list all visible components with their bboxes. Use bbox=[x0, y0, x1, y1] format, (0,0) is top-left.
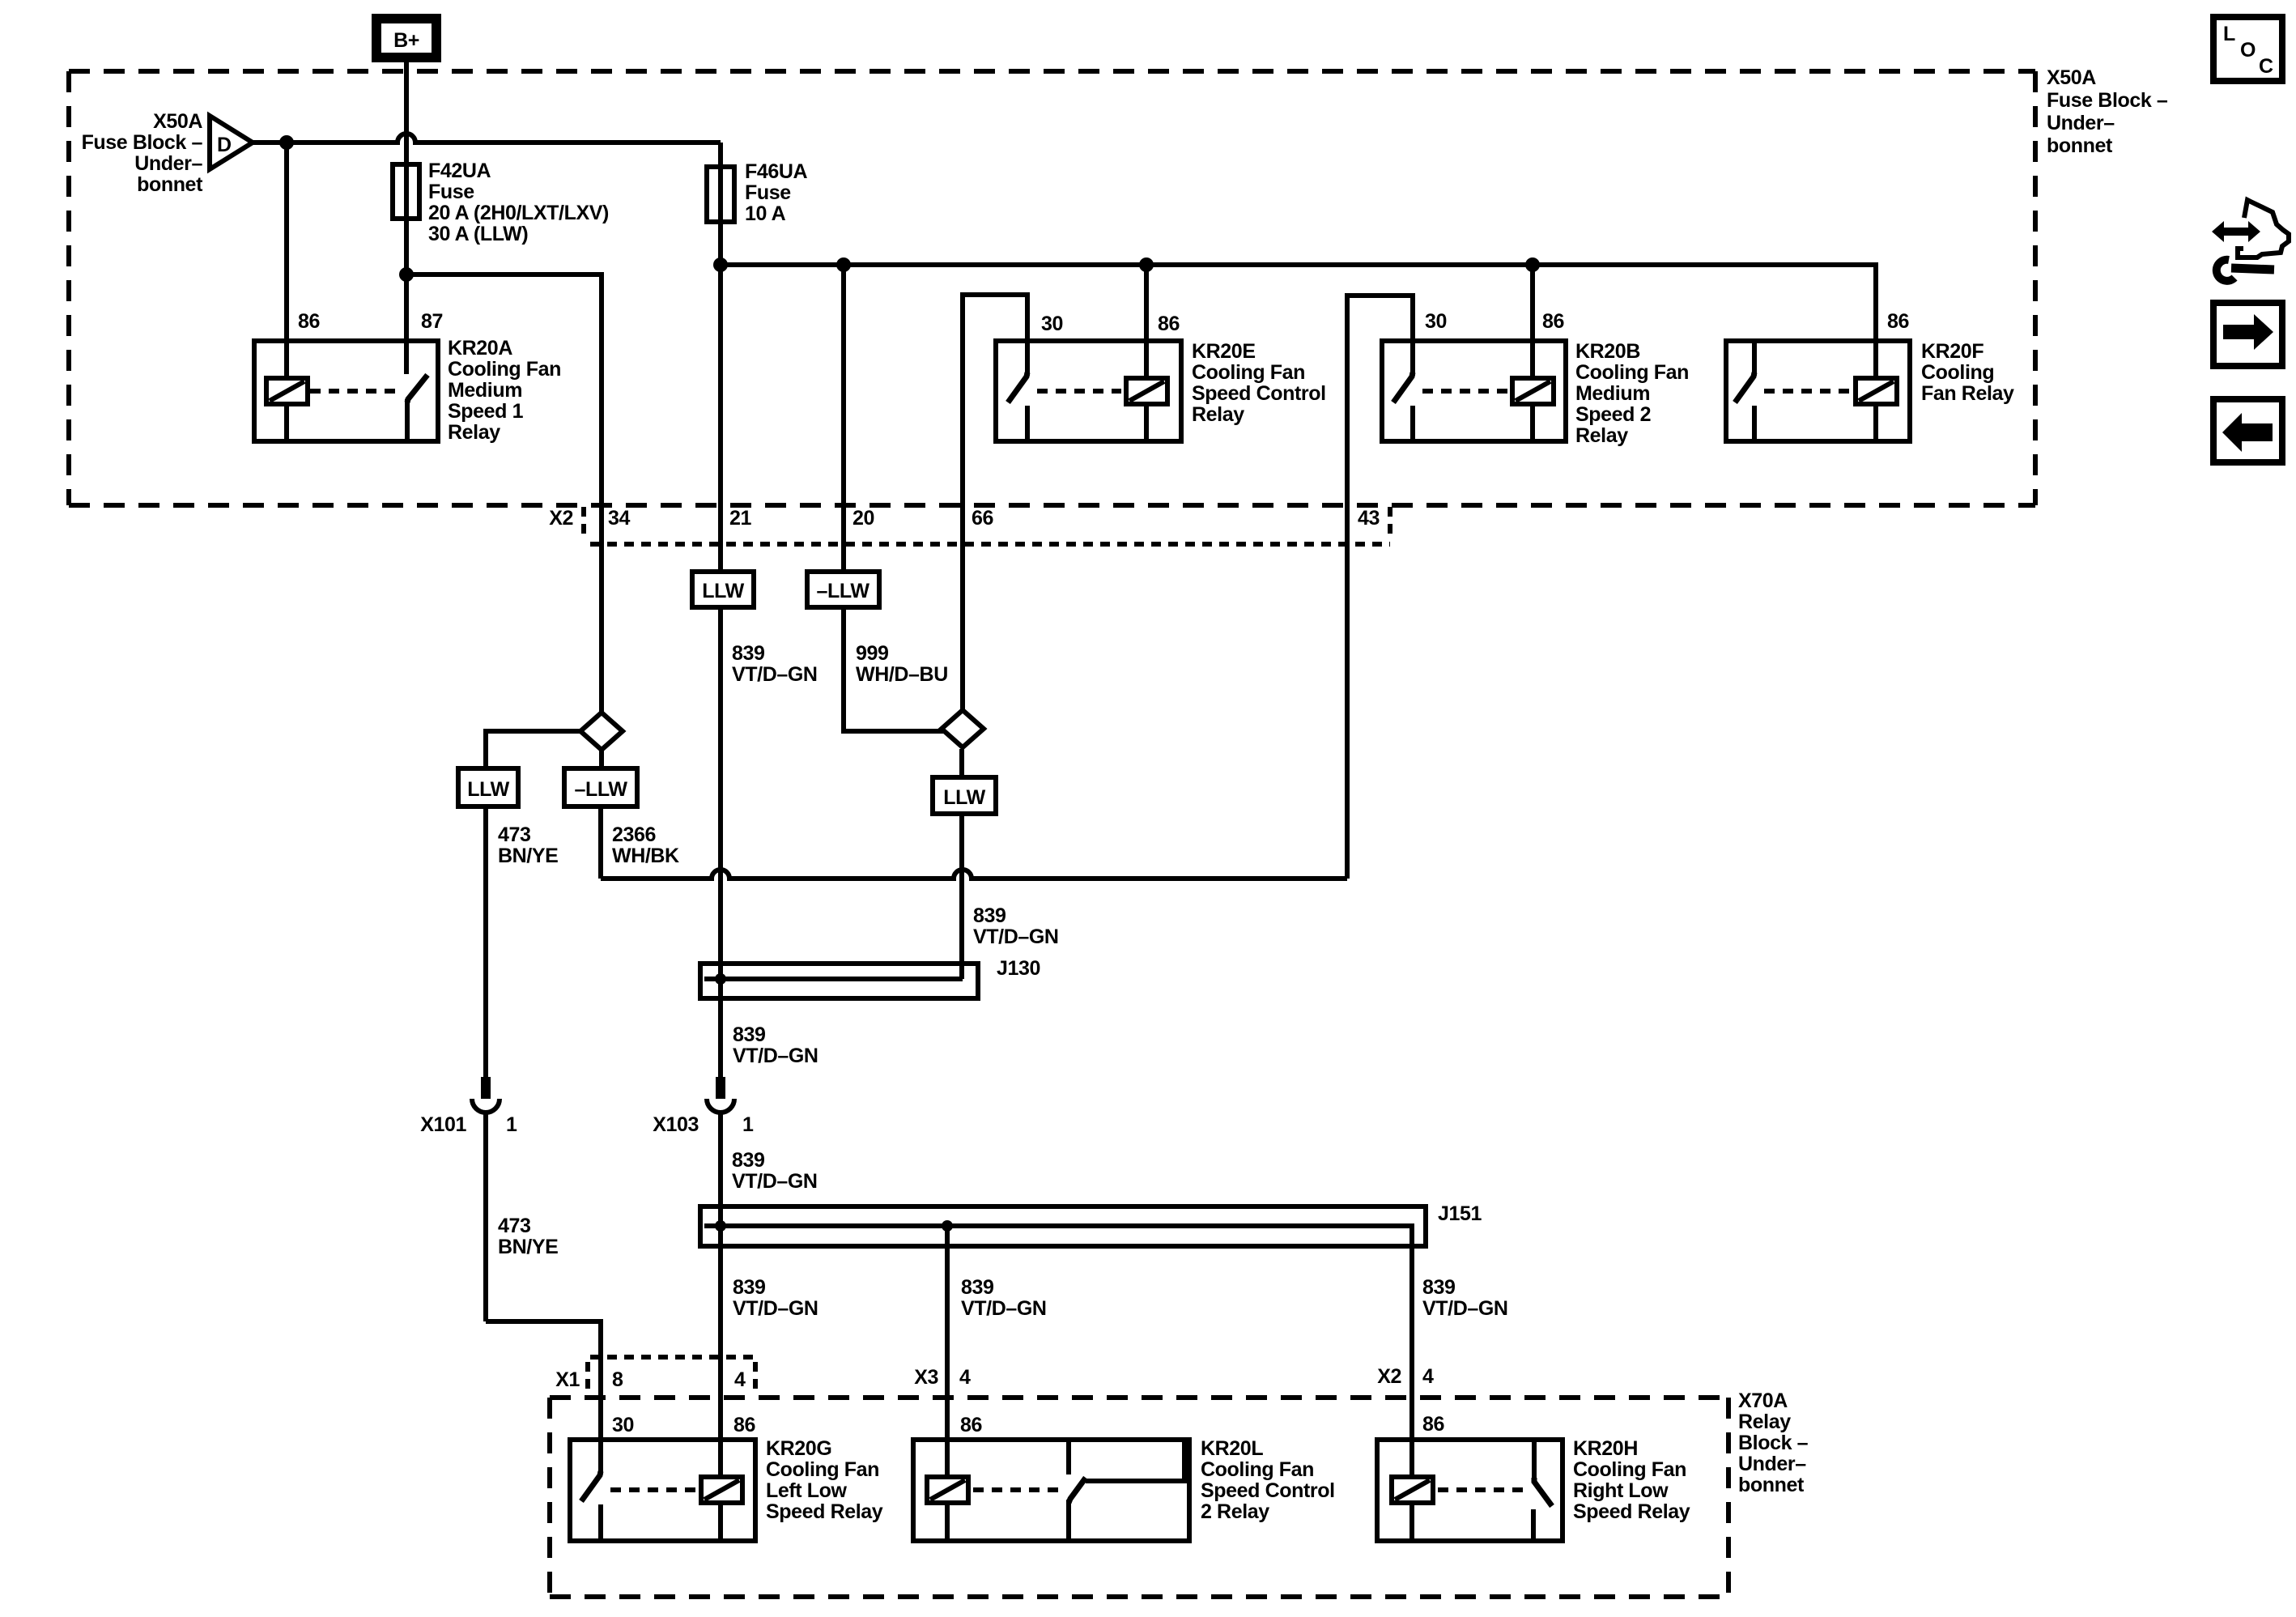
svg-text:F42UA: F42UA bbox=[428, 160, 491, 182]
svg-text:VT/D–GN: VT/D–GN bbox=[973, 926, 1059, 948]
svg-text:Cooling Fan: Cooling Fan bbox=[1575, 361, 1689, 384]
svg-text:X1: X1 bbox=[555, 1368, 580, 1391]
svg-text:D: D bbox=[217, 134, 232, 156]
svg-text:Speed Relay: Speed Relay bbox=[766, 1500, 883, 1523]
svg-text:473: 473 bbox=[498, 1215, 531, 1237]
svg-text:KR20E: KR20E bbox=[1192, 340, 1256, 363]
svg-text:Cooling Fan: Cooling Fan bbox=[1573, 1458, 1686, 1481]
svg-text:1: 1 bbox=[506, 1113, 517, 1136]
svg-text:8: 8 bbox=[612, 1368, 623, 1391]
svg-text:X3: X3 bbox=[914, 1366, 938, 1389]
svg-text:bonnet: bonnet bbox=[2047, 134, 2113, 157]
svg-text:Fuse Block –: Fuse Block – bbox=[2047, 89, 2168, 112]
svg-text:Cooling: Cooling bbox=[1921, 361, 1994, 384]
svg-text:VT/D–GN: VT/D–GN bbox=[732, 1170, 818, 1193]
svg-text:X2: X2 bbox=[1377, 1365, 1401, 1388]
svg-text:839: 839 bbox=[1422, 1276, 1456, 1299]
svg-text:86: 86 bbox=[1158, 313, 1180, 335]
svg-text:Medium: Medium bbox=[1575, 382, 1650, 405]
svg-text:Speed Control: Speed Control bbox=[1201, 1479, 1335, 1502]
svg-text:F46UA: F46UA bbox=[745, 160, 808, 183]
svg-text:KR20L: KR20L bbox=[1201, 1437, 1263, 1460]
svg-text:839: 839 bbox=[732, 1149, 765, 1172]
svg-text:C: C bbox=[2259, 55, 2273, 78]
svg-text:Relay: Relay bbox=[1192, 403, 1244, 426]
svg-text:Speed 2: Speed 2 bbox=[1575, 403, 1651, 426]
svg-text:4: 4 bbox=[1422, 1365, 1434, 1388]
svg-text:86: 86 bbox=[733, 1414, 755, 1436]
svg-text:Relay: Relay bbox=[1738, 1411, 1791, 1433]
svg-text:839: 839 bbox=[733, 1276, 766, 1299]
svg-text:KR20B: KR20B bbox=[1575, 340, 1640, 363]
svg-text:KR20A: KR20A bbox=[448, 337, 512, 360]
svg-text:30 A (LLW): 30 A (LLW) bbox=[428, 223, 528, 245]
svg-text:86: 86 bbox=[960, 1414, 982, 1436]
svg-text:Under–: Under– bbox=[2047, 112, 2115, 134]
svg-text:2 Relay: 2 Relay bbox=[1201, 1500, 1269, 1523]
svg-text:B+: B+ bbox=[393, 29, 419, 52]
svg-text:Cooling Fan: Cooling Fan bbox=[1192, 361, 1305, 384]
svg-text:Cooling Fan: Cooling Fan bbox=[448, 358, 561, 381]
svg-text:4: 4 bbox=[734, 1368, 746, 1391]
svg-text:30: 30 bbox=[1041, 313, 1063, 335]
svg-text:VT/D–GN: VT/D–GN bbox=[732, 663, 818, 686]
svg-text:Speed 1: Speed 1 bbox=[448, 400, 524, 423]
svg-text:X50A: X50A bbox=[153, 110, 202, 133]
svg-text:Right Low: Right Low bbox=[1573, 1479, 1669, 1502]
svg-text:Speed Control: Speed Control bbox=[1192, 382, 1326, 405]
svg-text:VT/D–GN: VT/D–GN bbox=[733, 1045, 818, 1067]
svg-text:bonnet: bonnet bbox=[137, 173, 203, 196]
svg-text:Under–: Under– bbox=[1738, 1453, 1806, 1475]
svg-text:LLW: LLW bbox=[467, 778, 509, 801]
svg-text:Left Low: Left Low bbox=[766, 1479, 848, 1502]
svg-text:10 A: 10 A bbox=[745, 202, 786, 225]
svg-text:X101: X101 bbox=[420, 1113, 466, 1136]
svg-text:Relay: Relay bbox=[448, 421, 500, 444]
svg-text:bonnet: bonnet bbox=[1738, 1474, 1805, 1496]
svg-text:839: 839 bbox=[733, 1023, 766, 1046]
svg-text:Cooling Fan: Cooling Fan bbox=[1201, 1458, 1314, 1481]
svg-text:4: 4 bbox=[959, 1366, 971, 1389]
svg-text:839: 839 bbox=[973, 904, 1006, 927]
svg-text:30: 30 bbox=[1425, 310, 1447, 333]
svg-text:L: L bbox=[2223, 23, 2235, 45]
svg-text:2366: 2366 bbox=[612, 823, 656, 846]
svg-text:Cooling Fan: Cooling Fan bbox=[766, 1458, 879, 1481]
svg-text:J151: J151 bbox=[1438, 1202, 1482, 1225]
svg-text:VT/D–GN: VT/D–GN bbox=[961, 1297, 1047, 1320]
svg-text:LLW: LLW bbox=[702, 580, 744, 602]
svg-text:86: 86 bbox=[1422, 1413, 1444, 1436]
svg-text:839: 839 bbox=[961, 1276, 994, 1299]
svg-text:86: 86 bbox=[1542, 310, 1564, 333]
svg-text:34: 34 bbox=[608, 507, 631, 530]
svg-text:87: 87 bbox=[421, 310, 443, 333]
svg-text:X103: X103 bbox=[653, 1113, 699, 1136]
svg-text:839: 839 bbox=[732, 642, 765, 665]
svg-text:KR20G: KR20G bbox=[766, 1437, 831, 1460]
svg-text:Fan Relay: Fan Relay bbox=[1921, 382, 2014, 405]
svg-text:86: 86 bbox=[1887, 310, 1909, 333]
svg-text:J130: J130 bbox=[997, 957, 1040, 980]
svg-text:Block –: Block – bbox=[1738, 1432, 1809, 1454]
svg-text:KR20F: KR20F bbox=[1921, 340, 1983, 363]
svg-text:Medium: Medium bbox=[448, 379, 522, 402]
svg-text:43: 43 bbox=[1358, 507, 1380, 530]
svg-text:X2: X2 bbox=[549, 507, 573, 530]
svg-text:999: 999 bbox=[856, 642, 889, 665]
svg-text:473: 473 bbox=[498, 823, 531, 846]
svg-text:–LLW: –LLW bbox=[574, 778, 627, 801]
svg-text:–LLW: –LLW bbox=[816, 580, 870, 602]
svg-text:BN/YE: BN/YE bbox=[498, 1236, 558, 1258]
svg-text:WH/D–BU: WH/D–BU bbox=[856, 663, 948, 686]
svg-text:X50A: X50A bbox=[2047, 66, 2096, 89]
svg-text:86: 86 bbox=[298, 310, 320, 333]
svg-text:KR20H: KR20H bbox=[1573, 1437, 1638, 1460]
svg-text:20 A (2H0/LXT/LXV): 20 A (2H0/LXT/LXV) bbox=[428, 202, 609, 224]
svg-text:Speed Relay: Speed Relay bbox=[1573, 1500, 1690, 1523]
svg-text:Under–: Under– bbox=[134, 152, 202, 175]
svg-text:VT/D–GN: VT/D–GN bbox=[1422, 1297, 1508, 1320]
svg-text:21: 21 bbox=[729, 507, 752, 530]
svg-text:66: 66 bbox=[972, 507, 993, 530]
svg-text:Fuse: Fuse bbox=[745, 181, 791, 204]
svg-text:Fuse Block –: Fuse Block – bbox=[82, 131, 203, 154]
svg-text:30: 30 bbox=[612, 1414, 634, 1436]
svg-text:O: O bbox=[2240, 39, 2256, 62]
svg-text:Fuse: Fuse bbox=[428, 181, 474, 203]
svg-text:VT/D–GN: VT/D–GN bbox=[733, 1297, 818, 1320]
svg-text:BN/YE: BN/YE bbox=[498, 845, 558, 867]
svg-text:1: 1 bbox=[742, 1113, 754, 1136]
svg-text:Relay: Relay bbox=[1575, 424, 1628, 447]
svg-text:WH/BK: WH/BK bbox=[612, 845, 679, 867]
svg-text:LLW: LLW bbox=[943, 786, 985, 809]
svg-text:20: 20 bbox=[852, 507, 874, 530]
svg-text:X70A: X70A bbox=[1738, 1389, 1788, 1412]
